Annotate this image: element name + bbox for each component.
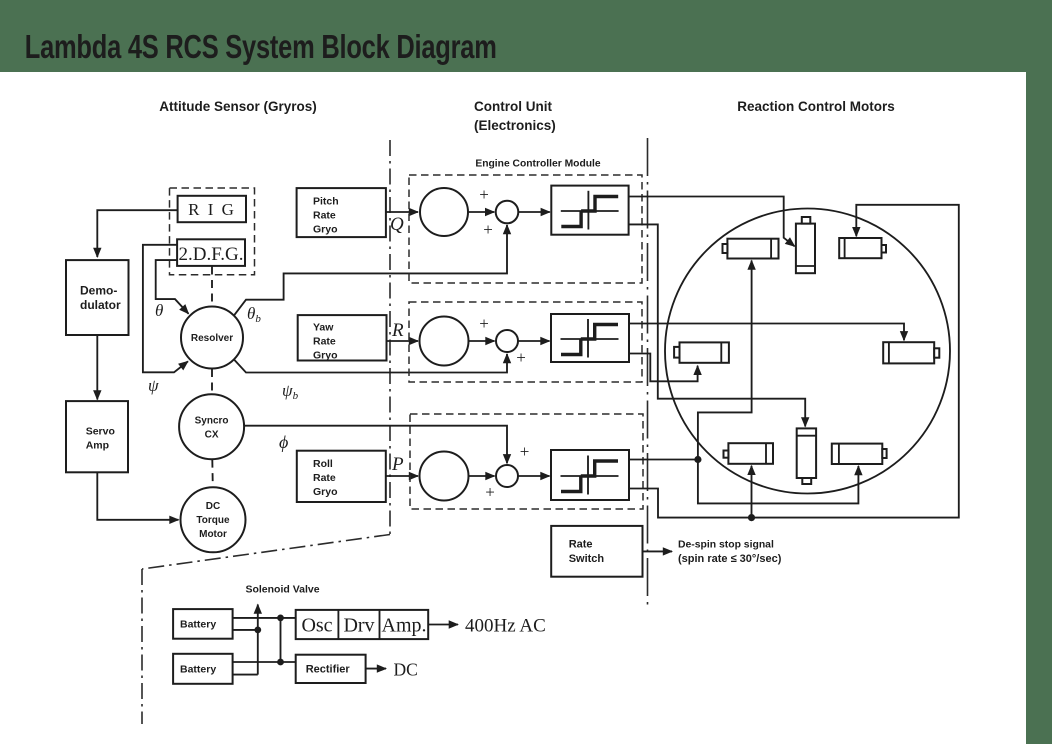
- section separator dash-dot vertical left: [389, 140, 391, 535]
- block Rectifier: [296, 655, 366, 683]
- motor top-left body: [727, 239, 778, 259]
- block Servo Amp: [66, 401, 128, 472]
- svg-text:+: +: [483, 220, 493, 239]
- svg-text:Attitude Sensor (Gryros): Attitude Sensor (Gryros): [159, 99, 317, 114]
- wire theta-b: resolver to pitch summing point: [234, 225, 507, 316]
- motor top-right body: [839, 238, 881, 258]
- wire yaw relay lower output to middle-left motor: [629, 354, 698, 382]
- svg-text:ψ: ψ: [148, 376, 159, 395]
- block Osc Drv Amp: [296, 610, 429, 639]
- svg-text:+: +: [479, 185, 489, 204]
- svg-text:Rate: Rate: [313, 210, 336, 222]
- svg-text:R: R: [391, 320, 404, 341]
- svg-text:Demo-: Demo-: [80, 284, 117, 298]
- wire pitch relay lower output to bottom-center motor: [629, 224, 806, 426]
- wire Q: pitch gyro to amplifier: [386, 211, 418, 213]
- block 2.D.F.G.: [177, 239, 245, 266]
- svg-text:Engine Controller Module: Engine Controller Module: [475, 159, 601, 170]
- wire roll amp to summing: [469, 475, 495, 477]
- wire to DC: [366, 668, 386, 670]
- motor bottom-right nozzle: [882, 449, 886, 458]
- block Battery upper: [173, 609, 233, 639]
- svg-text:P: P: [391, 454, 404, 475]
- svg-text:Control Unit: Control Unit: [474, 99, 552, 114]
- svg-text:Torque: Torque: [196, 515, 230, 526]
- motor bottom-right body: [832, 444, 883, 464]
- wire de-spin stop signal: [643, 550, 673, 552]
- svg-text:Servo: Servo: [86, 426, 115, 438]
- svg-text:Osc: Osc: [301, 615, 332, 637]
- wire battery upper lower-tap to solenoid line: [233, 629, 258, 631]
- motor bottom-left nozzle: [724, 451, 729, 458]
- junction dot bottom bus: [748, 514, 755, 521]
- svg-text:R I G: R I G: [188, 200, 236, 219]
- wire pitch summing to relay: [518, 211, 550, 213]
- pitch relay characteristic: [561, 191, 619, 230]
- wire P: roll gyro to amplifier: [386, 475, 418, 477]
- wire yaw relay upper output to middle-right motor: [629, 324, 904, 341]
- svg-text:Resolver: Resolver: [191, 333, 233, 344]
- block Yaw Rate Gryo: [298, 315, 387, 360]
- svg-text:ϕ: ϕ: [279, 432, 288, 452]
- section separator dash-dot diagonal: [142, 535, 390, 570]
- motor top-right nozzle: [882, 245, 887, 253]
- roll channel dashed box: [410, 414, 643, 509]
- yaw amplifier circle: [420, 317, 469, 366]
- roll relay characteristic: [561, 456, 619, 495]
- motor middle-left body: [680, 342, 729, 362]
- svg-text:Motor: Motor: [199, 529, 227, 540]
- roll amplifier circle: [420, 452, 469, 501]
- svg-text:Gryo: Gryo: [313, 350, 338, 362]
- motor top-center body: [796, 224, 815, 274]
- reaction motors mounting circle: [665, 209, 950, 494]
- svg-text:400Hz AC: 400Hz AC: [465, 616, 546, 637]
- wire 2.D.F.G. to resolver (psi input): [143, 245, 188, 372]
- wire RIG to demodulator: [97, 210, 177, 257]
- DC torque motor circle: [181, 487, 246, 552]
- wire battery bus vertical: [280, 618, 282, 662]
- wire roll summing to relay: [518, 475, 550, 477]
- wire pitch relay upper output to top-center motor: [629, 197, 795, 247]
- svg-text:Switch: Switch: [569, 553, 605, 565]
- resolver circle: [181, 307, 243, 369]
- svg-text:De-spin stop signal: De-spin stop signal: [678, 540, 774, 551]
- motor middle-right body: [883, 342, 934, 363]
- block Roll Rate Gryo: [297, 451, 386, 502]
- yaw relay characteristic: [561, 319, 619, 358]
- junction dot bus lower: [277, 659, 284, 666]
- wire junction down to bottom-right motor: [698, 460, 859, 504]
- wire servo amp to DC torque motor: [97, 472, 178, 520]
- wire phi: syncro CX to roll summing point: [244, 426, 507, 464]
- svg-text:Amp: Amp: [86, 440, 109, 452]
- svg-text:Solenoid Valve: Solenoid Valve: [245, 584, 319, 596]
- wire roll relay upper output to junction: [629, 459, 698, 461]
- svg-text:+: +: [520, 442, 530, 461]
- svg-text:+: +: [479, 314, 489, 333]
- junction dot roll upper: [694, 456, 701, 463]
- wire battery upper to osc: [233, 617, 296, 619]
- svg-text:Reaction Control Motors: Reaction Control Motors: [737, 99, 895, 114]
- block RIG: [178, 196, 246, 222]
- wire R: yaw gyro to amplifier: [387, 340, 419, 342]
- svg-text:Rectifier: Rectifier: [306, 664, 351, 676]
- svg-text:Battery: Battery: [180, 619, 216, 631]
- svg-text:DC: DC: [394, 660, 418, 680]
- svg-text:2.D.F.G.: 2.D.F.G.: [179, 244, 244, 265]
- pitch amplifier circle: [420, 188, 468, 236]
- block Rate Switch: [551, 526, 642, 577]
- pitch channel dashed box: [409, 175, 642, 283]
- svg-text:CX: CX: [205, 430, 219, 441]
- roll relay box: [551, 450, 629, 500]
- svg-text:Q: Q: [390, 214, 404, 235]
- block Pitch Rate Gryo: [297, 188, 386, 237]
- svg-text:θ: θ: [155, 301, 163, 320]
- wire battery lower lower-tap to solenoid line: [233, 674, 258, 676]
- wire pitch amp to summing: [468, 211, 494, 213]
- junction dot bus upper: [277, 615, 284, 622]
- wire 2.D.F.G. to resolver (theta input): [156, 260, 189, 314]
- wire yaw amp to summing: [469, 340, 495, 342]
- svg-text:Amp.: Amp.: [382, 615, 427, 637]
- wire junction up to bottom-left motor: [751, 466, 753, 518]
- svg-text:Roll: Roll: [313, 458, 333, 470]
- wire yaw summing to relay: [518, 340, 550, 342]
- yaw channel dashed box: [409, 302, 642, 382]
- svg-text:Yaw: Yaw: [313, 322, 334, 334]
- junction dot solenoid line: [254, 627, 261, 634]
- svg-text:DC: DC: [206, 501, 220, 512]
- motor top-left nozzle: [723, 244, 728, 253]
- wire roll relay lower output along bottom bus: [629, 205, 959, 518]
- motor bottom-left body: [728, 443, 773, 464]
- svg-text:(spin rate ≤ 30°/sec): (spin rate ≤ 30°/sec): [678, 553, 782, 565]
- yaw relay box: [551, 314, 629, 362]
- wire battery lower to rectifier: [233, 661, 296, 663]
- svg-text:+: +: [485, 483, 495, 502]
- block Demodulator: [66, 260, 129, 335]
- section separator dash-dot vertical bottom-left: [141, 569, 143, 724]
- section separator dash-dot vertical right: [647, 138, 649, 610]
- svg-text:Lambda 4S RCS System Block Dia: Lambda 4S RCS System Block Diagram: [25, 29, 497, 66]
- shaft 2.D.F.G. to resolver (dashed): [211, 267, 213, 307]
- motor middle-right nozzle: [934, 348, 939, 357]
- svg-text:Rate: Rate: [313, 472, 336, 484]
- wire demodulator to servo amp: [96, 335, 98, 400]
- svg-text:Gryo: Gryo: [313, 224, 338, 236]
- svg-text:Rate: Rate: [569, 539, 593, 551]
- shaft syncro to DC motor (dashed): [211, 460, 214, 487]
- wire junction up to top-left motor: [698, 261, 752, 460]
- svg-text:dulator: dulator: [80, 298, 121, 312]
- pitch summing circle: [496, 201, 519, 224]
- motor bottom-center nozzle: [802, 478, 811, 484]
- yaw summing circle: [496, 330, 518, 352]
- shaft resolver to syncro (dashed): [211, 369, 213, 394]
- svg-text:Gryo: Gryo: [313, 486, 338, 498]
- svg-text:Pitch: Pitch: [313, 196, 339, 208]
- syncro CX circle: [179, 394, 244, 459]
- motor top-center nozzle: [802, 217, 811, 224]
- svg-text:(Electronics): (Electronics): [474, 118, 556, 133]
- svg-text:+: +: [516, 348, 526, 367]
- svg-text:Rate: Rate: [313, 336, 336, 348]
- block Battery lower: [173, 654, 233, 684]
- motor bottom-center body: [797, 428, 816, 478]
- roll summing circle: [496, 465, 518, 487]
- wire to 400Hz AC: [428, 624, 458, 626]
- svg-text:Syncro: Syncro: [195, 416, 229, 427]
- motor middle-left nozzle: [674, 347, 679, 358]
- svg-text:Battery: Battery: [180, 664, 216, 676]
- dashed enclosure around RIG and 2.D.F.G.: [170, 188, 255, 275]
- wire psi-b: resolver to yaw summing point: [234, 354, 507, 373]
- svg-text:Drv: Drv: [343, 615, 374, 637]
- wire solenoid valve feed: [257, 605, 259, 675]
- pitch relay box: [551, 186, 628, 235]
